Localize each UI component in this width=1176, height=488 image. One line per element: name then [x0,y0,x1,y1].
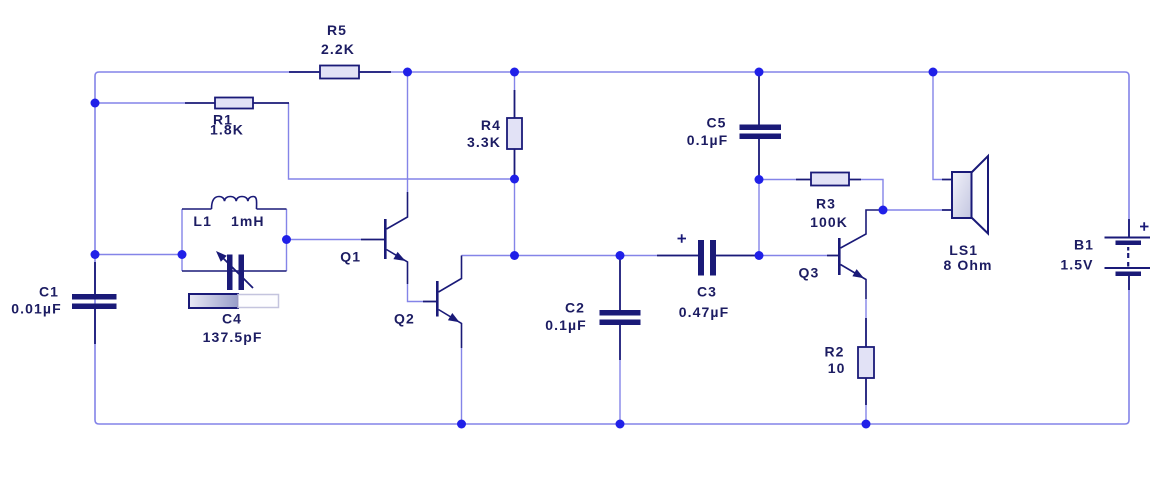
svg-text:2.2K: 2.2K [321,41,355,57]
capacitor C1 [72,262,117,344]
transistor Q2 [423,256,462,349]
capacitor C3 [657,234,759,275]
svg-text:LS1: LS1 [949,242,978,258]
svg-text:3.3K: 3.3K [467,134,501,150]
capacitor C5 [740,74,782,180]
resistor R2 [858,318,874,405]
wire Q3 emitter gap [865,299,867,318]
svg-text:Q1: Q1 [340,249,361,265]
svg-text:0.47µF: 0.47µF [679,304,729,320]
svg-text:L1: L1 [193,213,212,229]
resistor R4 [507,90,522,179]
wire mid rail left [462,255,699,257]
wire tank left edge [181,209,183,271]
wire C5 node to R3 [759,179,796,181]
wire mid rail right [716,255,827,257]
wire R2 bottom to rail [865,405,867,424]
wire tank feed [95,254,182,256]
svg-text:0.1µF: 0.1µF [687,132,729,148]
svg-text:R2: R2 [824,344,844,360]
svg-text:0.1µF: 0.1µF [545,317,587,333]
svg-text:C5: C5 [706,115,726,131]
speaker LS1 [942,156,988,234]
svg-text:Q2: Q2 [394,311,415,327]
svg-text:10: 10 [828,360,846,376]
svg-text:Q3: Q3 [799,265,820,281]
svg-text:R3: R3 [816,196,836,212]
C4 slider [189,294,238,308]
node junction dots [91,68,938,429]
wire R1 branch [95,102,185,104]
svg-text:0.01µF: 0.01µF [11,301,61,317]
resistor R1 [185,98,289,109]
resistor R3 [796,173,861,186]
wire C2 bottom [619,360,621,424]
wire R1 to R4 node [289,103,515,179]
inductor L1 tank top/bottom [182,197,287,272]
svg-text:1.5V: 1.5V [1060,257,1093,273]
wire node to speaker lower lead [883,209,942,211]
battery plus sign [1140,222,1149,231]
svg-text:C1: C1 [39,284,59,300]
wire tank right edge [286,209,288,271]
svg-text:137.5pF: 137.5pF [203,329,263,345]
svg-text:B1: B1 [1074,237,1094,253]
svg-text:100K: 100K [810,214,848,230]
wire R4 bottom to mid rail [514,179,516,256]
transistor Q3 [827,210,883,299]
svg-text:1mH: 1mH [231,213,265,229]
wire C5 node to C3 node [758,180,760,256]
svg-text:1.8K: 1.8K [210,122,244,138]
wire tank to Q1 base [287,239,362,241]
wire outer loop [95,72,1129,424]
capacitor C4 (variable) [227,255,244,291]
svg-text:R4: R4 [481,117,501,133]
wire Q2 emitter to bottom rail [461,348,463,424]
wire Q1 collector [407,72,409,192]
svg-text:8 Ohm: 8 Ohm [943,257,992,273]
wire R3 right to node [861,180,883,211]
wire speaker top drop [933,72,942,180]
capacitor C2 [600,257,641,360]
wire R4 top [514,72,516,90]
wire Q1 emitter to Q2 base [408,284,424,302]
svg-text:R5: R5 [327,22,347,38]
svg-text:C4: C4 [222,311,242,327]
battery B1 [1105,219,1151,290]
svg-text:C3: C3 [697,284,717,300]
transistor Q1 [361,192,408,284]
svg-text:C2: C2 [565,300,585,316]
resistor R5 [289,66,391,79]
